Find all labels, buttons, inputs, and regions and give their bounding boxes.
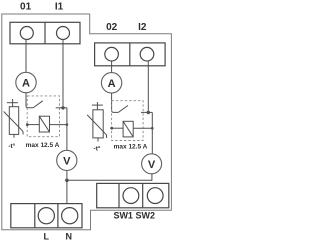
relay K2 dashed box	[112, 101, 144, 141]
svg-text:A: A	[22, 78, 30, 90]
relay K2 fixed contact bar	[141, 111, 152, 113]
relay K2 coil	[112, 121, 153, 137]
relay K1 fixed contact bar	[56, 107, 67, 109]
relay K1 coil	[27, 116, 67, 132]
thermistor RT2	[87, 102, 107, 142]
wire A1 to relay contact	[26, 93, 33, 108]
node N junction	[65, 179, 69, 183]
svg-text:V: V	[63, 156, 71, 168]
terminal block O2/I2	[95, 43, 166, 66]
svg-text:N: N	[65, 232, 72, 240]
terminal block O1/I1	[10, 22, 80, 44]
svg-text:A: A	[108, 78, 116, 90]
ammeter A2	[101, 73, 121, 93]
wire A2 to relay contact	[112, 93, 119, 112]
svg-text:L: L	[44, 232, 50, 240]
junction coil2 lead right	[151, 127, 154, 130]
wire I1 down	[62, 39, 64, 108]
svg-text:-t°: -t°	[8, 142, 15, 150]
junction coil2 lead left	[110, 127, 113, 130]
voltmeter V2	[142, 154, 162, 174]
relay K1 dashed box	[27, 96, 59, 137]
svg-text:I1: I1	[55, 1, 64, 12]
svg-text:max 12.5 A: max 12.5 A	[26, 142, 60, 149]
junction I2/contact	[147, 111, 150, 114]
wire V1 to node N	[66, 170, 68, 203]
wire contact to voltmeter V1	[66, 108, 68, 151]
wire contact to voltmeter V2	[151, 112, 153, 154]
wire O2 to ammeter A2	[111, 61, 113, 73]
junction I1/contact	[61, 106, 64, 109]
ammeter A1	[16, 72, 36, 92]
svg-text:SW1 SW2: SW1 SW2	[113, 211, 155, 221]
relay K1 contact blade	[33, 101, 43, 108]
terminal block SW1/SW2	[97, 183, 169, 207]
relay K2 contact blade	[118, 105, 128, 112]
svg-text:01: 01	[20, 2, 32, 13]
svg-text:02: 02	[106, 22, 118, 33]
enclosure outline	[2, 14, 172, 230]
svg-text:max 12.5 A: max 12.5 A	[114, 144, 148, 151]
wire V2 to SW block	[151, 174, 153, 181]
wire O1 to ammeter	[25, 39, 27, 72]
voltmeter V1	[57, 150, 77, 170]
junction coil lead left	[26, 123, 29, 126]
svg-text:I2: I2	[138, 22, 147, 33]
thermistor RT1	[4, 99, 24, 138]
svg-text:V: V	[148, 159, 156, 171]
svg-text:-t°: -t°	[94, 144, 101, 152]
terminal block L/N	[11, 204, 82, 228]
wire node N to SW block	[67, 179, 152, 181]
wire I2 down	[147, 61, 149, 113]
junction coil lead right	[66, 123, 69, 126]
